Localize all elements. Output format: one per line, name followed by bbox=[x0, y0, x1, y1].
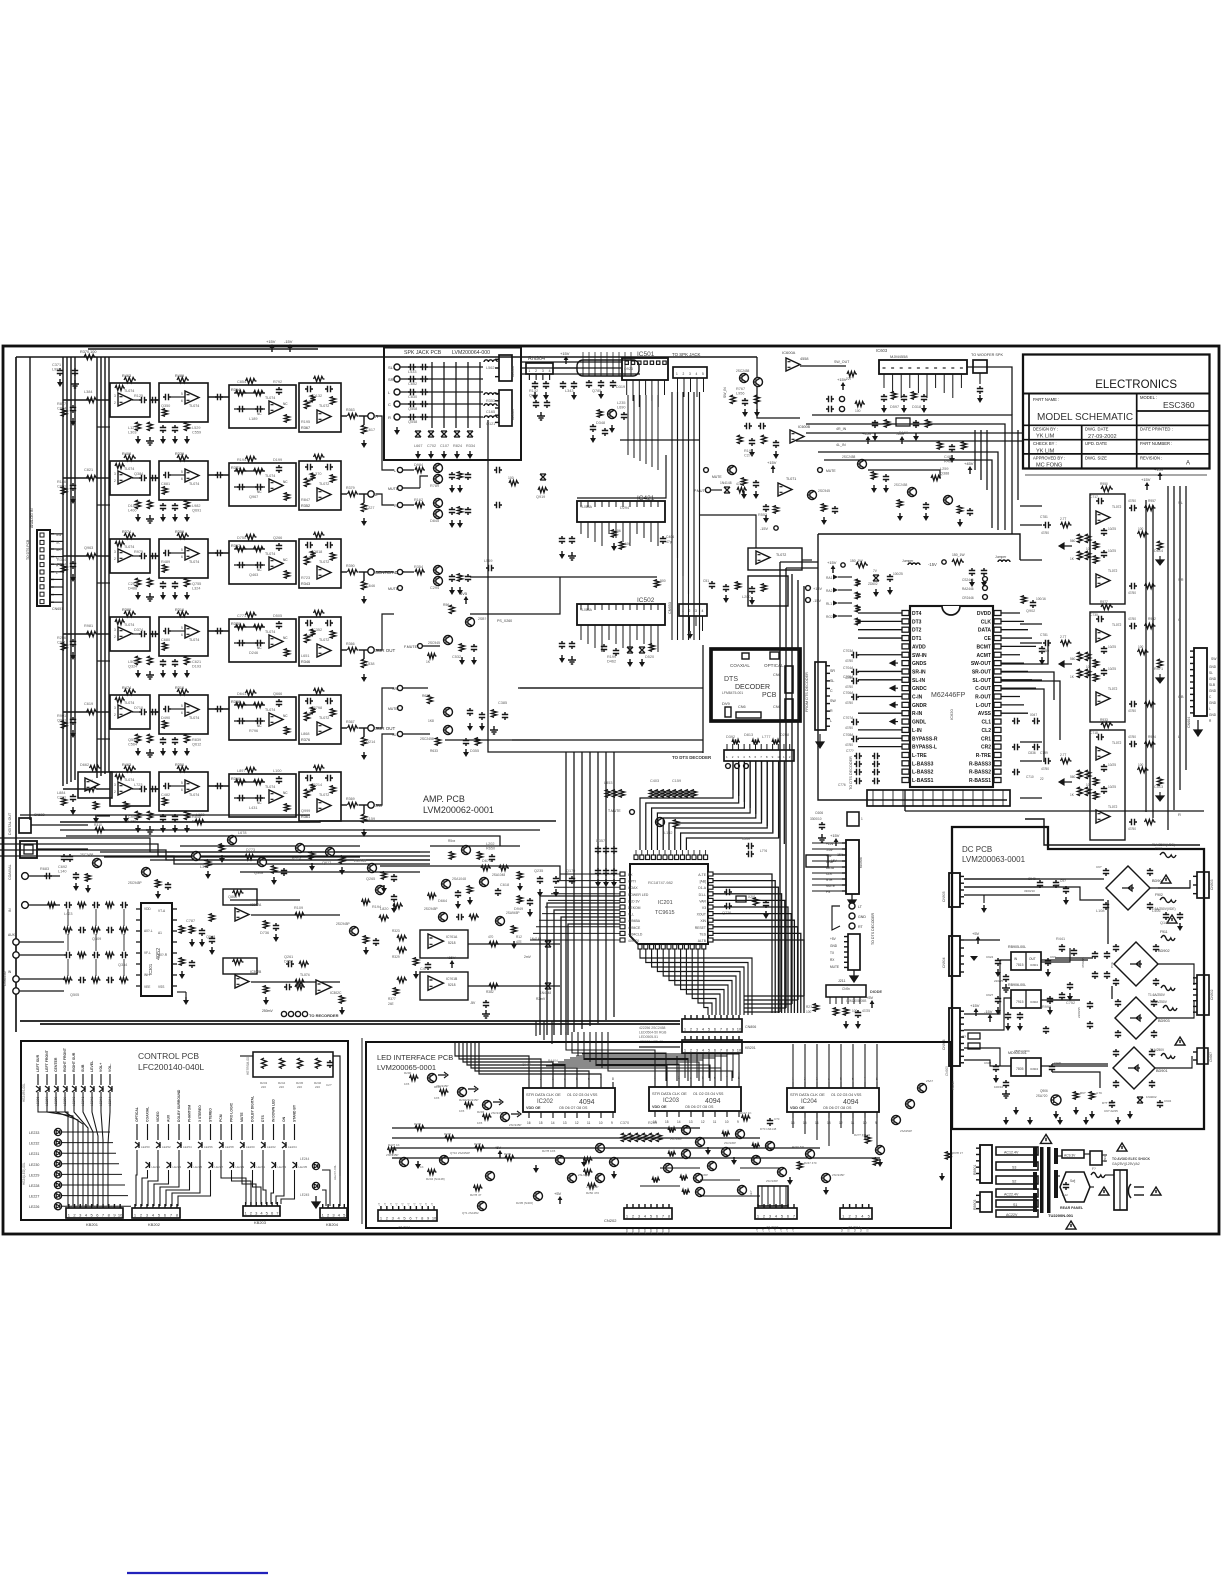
svg-text:GNDL: GNDL bbox=[912, 720, 926, 726]
svg-text:R367: R367 bbox=[346, 720, 355, 724]
svg-text:CN301-00: CN301-00 bbox=[3, 971, 7, 986]
svg-text:AC9.3V: AC9.3V bbox=[1064, 1154, 1076, 1158]
svg-text:3: 3 bbox=[114, 706, 116, 710]
svg-text:1: 1 bbox=[528, 369, 530, 373]
svg-text:MODEL :: MODEL : bbox=[1140, 395, 1157, 400]
svg-text:R369: R369 bbox=[346, 797, 355, 801]
svg-text:L100: L100 bbox=[273, 769, 281, 773]
svg-text:R408: R408 bbox=[122, 452, 131, 456]
svg-text:D462: D462 bbox=[607, 660, 616, 664]
svg-text:L: L bbox=[1209, 707, 1211, 711]
svg-text:R377: R377 bbox=[388, 997, 396, 1001]
mid caps row bbox=[537, 876, 543, 884]
LED pcb inter-transistor wires bbox=[660, 1167, 700, 1169]
load resistor + ground bbox=[363, 805, 365, 814]
svg-text:LVM200064-000: LVM200064-000 bbox=[452, 350, 490, 356]
svg-text:4: 4 bbox=[549, 369, 551, 373]
reg support caps bbox=[709, 581, 715, 589]
svg-text:C77?: C77? bbox=[846, 749, 854, 753]
svg-text:250mV: 250mV bbox=[262, 1009, 273, 1013]
svg-text:PRO LOGIC: PRO LOGIC bbox=[230, 1102, 234, 1122]
CN904 connector bbox=[949, 936, 960, 976]
IC301 bottom ground bbox=[185, 997, 187, 1000]
svg-text:R957: R957 bbox=[1148, 499, 1156, 503]
svg-text:2.7T: 2.7T bbox=[1060, 753, 1066, 757]
svg-text:DWG. SIZE: DWG. SIZE bbox=[1085, 455, 1107, 460]
left vertical bus wires bbox=[15, 357, 17, 1032]
svg-text:C646: C646 bbox=[366, 584, 375, 588]
transistor near IC603 bbox=[858, 460, 867, 469]
svg-text:+5: +5 bbox=[779, 1228, 783, 1232]
svg-text:5: 5 bbox=[181, 548, 183, 552]
svg-text:R5xx: R5xx bbox=[448, 839, 456, 843]
svg-text:C: C bbox=[830, 689, 833, 693]
feedback resistors bbox=[1101, 486, 1113, 491]
output resistor A bbox=[1129, 505, 1137, 511]
svg-text:+5B: +5B bbox=[655, 1229, 659, 1234]
svg-text:R237 1K: R237 1K bbox=[388, 1143, 400, 1147]
svg-text:2SA?20: 2SA?20 bbox=[1036, 1094, 1048, 1098]
svg-text:DT3: DT3 bbox=[912, 619, 922, 625]
svg-text:10/25: 10/25 bbox=[1108, 645, 1116, 649]
svg-text:ACMT: ACMT bbox=[977, 653, 991, 659]
svg-text:GND: GND bbox=[1209, 689, 1217, 693]
svg-text:RB901: RB901 bbox=[973, 1165, 977, 1175]
svg-text:RG2: RG2 bbox=[826, 615, 833, 619]
cluster left of IC302C bbox=[286, 961, 294, 967]
svg-text:LE221: LE221 bbox=[152, 1165, 161, 1169]
svg-text:STEREO: STEREO bbox=[209, 1108, 213, 1122]
svg-text:CE: CE bbox=[984, 636, 992, 642]
svg-text:R933: R933 bbox=[1100, 718, 1108, 722]
svg-text:+5V: +5V bbox=[554, 1191, 562, 1196]
filter row stage 2 (op-amp) bbox=[159, 539, 208, 578]
wire loop left of DTS box bbox=[702, 645, 704, 753]
svg-text:5: 5 bbox=[181, 781, 183, 785]
SPK JACK PCB boundary bbox=[384, 348, 521, 461]
RN904 caps cluster bbox=[532, 381, 538, 389]
svg-text:R132: R132 bbox=[529, 389, 538, 393]
svg-text:R796: R796 bbox=[249, 729, 258, 733]
MCU right bus wires bbox=[713, 874, 772, 1013]
line filter hexagon bbox=[1060, 1172, 1090, 1202]
svg-text:D488: D488 bbox=[128, 587, 137, 591]
coupling caps bbox=[150, 397, 158, 403]
svg-text:GNDC: GNDC bbox=[912, 686, 927, 692]
svg-text:LE231: LE231 bbox=[257, 1165, 266, 1169]
M62446FP routing boundary bbox=[1031, 389, 1033, 391]
right side pin wires bbox=[1001, 612, 1020, 614]
svg-text:K: K bbox=[88, 1205, 92, 1207]
svg-text:CN902: CN902 bbox=[1210, 989, 1214, 1000]
RB901 connector bbox=[980, 1145, 992, 1183]
shift register IC202 4094 bbox=[523, 1088, 615, 1112]
mid caps bbox=[1101, 528, 1107, 536]
wire to output bbox=[341, 415, 347, 417]
MCU routing fan from TO DTS bbox=[640, 761, 733, 850]
svg-text:R354: R354 bbox=[414, 565, 423, 569]
svg-text:IN: IN bbox=[8, 908, 12, 912]
svg-text:CN905: CN905 bbox=[945, 1066, 949, 1076]
svg-text:2SA1048: 2SA1048 bbox=[452, 877, 466, 881]
svg-text:RIGHT FRONT: RIGHT FRONT bbox=[63, 1047, 67, 1072]
svg-text:SR: SR bbox=[388, 377, 394, 382]
filter row stage 1 (op-amp) bbox=[110, 617, 150, 651]
svg-text:R117 1K: R117 1K bbox=[740, 1111, 751, 1115]
extra wires top mid bbox=[700, 515, 756, 548]
svg-text:D926: D926 bbox=[624, 367, 633, 371]
+15V arrow near RN904 bbox=[565, 359, 567, 364]
svg-text:8: 8 bbox=[612, 1077, 614, 1081]
svg-text:5218: 5218 bbox=[448, 983, 456, 987]
svg-text:R374: R374 bbox=[122, 530, 131, 534]
svg-text:10: 10 bbox=[725, 1120, 729, 1124]
svg-text:SL: SL bbox=[830, 679, 834, 683]
op-amp TL071 bbox=[778, 483, 792, 496]
extra verticals into LED pcb bbox=[535, 1021, 537, 1036]
svg-text:4094: 4094 bbox=[579, 1099, 595, 1106]
svg-text:47/50: 47/50 bbox=[1041, 767, 1049, 771]
wire bbox=[208, 785, 229, 787]
wire bbox=[208, 552, 229, 554]
svg-text:BD901: BD901 bbox=[1156, 1069, 1168, 1073]
M62446 input caps bbox=[851, 652, 859, 658]
svg-text:+5: +5 bbox=[791, 1228, 795, 1232]
svg-text:-15V: -15V bbox=[928, 562, 937, 567]
top caps C940 bbox=[1037, 880, 1043, 888]
RN903 caps below bbox=[586, 380, 592, 388]
svg-text:GND: GND bbox=[1209, 665, 1217, 669]
svg-text:C703A: C703A bbox=[843, 649, 854, 653]
svg-text:220: 220 bbox=[315, 1085, 320, 1089]
svg-text:Q919: Q919 bbox=[536, 495, 545, 499]
svg-text:Q505: Q505 bbox=[70, 993, 79, 997]
svg-text:TL072: TL072 bbox=[319, 560, 329, 564]
svg-text:COAX: COAX bbox=[628, 886, 638, 890]
svg-text:C9?: C9? bbox=[1096, 865, 1102, 869]
svg-text:L-TRE: L-TRE bbox=[912, 753, 927, 759]
+15V -15V labels bottom bbox=[835, 841, 837, 846]
right amp boundary bbox=[1025, 474, 1207, 476]
svg-text:3: 3 bbox=[114, 472, 116, 476]
svg-text:LED INTERFACE PCB: LED INTERFACE PCB bbox=[377, 1053, 453, 1062]
svg-text:Q999: Q999 bbox=[301, 809, 310, 813]
svg-text:CS2446: CS2446 bbox=[962, 578, 974, 582]
svg-text:REAR PANEL: REAR PANEL bbox=[1060, 1206, 1084, 1210]
bias network right middle bbox=[908, 488, 917, 497]
svg-text:L538: L538 bbox=[366, 662, 374, 666]
svg-text:C771: C771 bbox=[237, 614, 246, 618]
border frame bbox=[3, 346, 1219, 1234]
svg-text:KB202: KB202 bbox=[148, 1222, 161, 1227]
svg-text:D845: D845 bbox=[430, 519, 439, 523]
title block bbox=[1023, 355, 1210, 469]
amp strip extra transistors bbox=[192, 852, 201, 861]
ground arrow bbox=[1059, 543, 1072, 549]
svg-text:INH: INH bbox=[144, 973, 150, 977]
IC202 bottom pins bbox=[528, 1112, 530, 1118]
svg-text:LE227: LE227 bbox=[29, 1195, 39, 1199]
svg-text:C730: C730 bbox=[1090, 613, 1098, 617]
svg-text:C482: C482 bbox=[161, 793, 170, 797]
svg-text:2SB?: 2SB? bbox=[478, 617, 486, 621]
filter row stage 3 (op-amp) bbox=[229, 541, 296, 584]
svg-text:3: 3 bbox=[114, 628, 116, 632]
svg-text:2SC945: 2SC945 bbox=[428, 641, 440, 645]
svg-text:-15V: -15V bbox=[984, 1009, 993, 1014]
warning above transformer bbox=[1040, 1134, 1051, 1143]
fuse F911 bbox=[1161, 936, 1175, 941]
row7 extra grounds bbox=[93, 802, 98, 810]
CN905 connector bbox=[949, 873, 960, 907]
input caps left bbox=[1043, 758, 1051, 764]
svg-text:S3: S3 bbox=[1012, 1166, 1016, 1170]
svg-text:+5B: +5B bbox=[643, 1229, 647, 1234]
svg-text:+15V: +15V bbox=[837, 377, 847, 382]
analog input connector CN651 bbox=[37, 530, 50, 606]
load resistor + ground bbox=[363, 650, 365, 659]
svg-text:NC: NC bbox=[257, 568, 262, 572]
svg-text:R359: R359 bbox=[175, 530, 184, 534]
load resistor + ground bbox=[363, 494, 365, 503]
svg-text:TL074: TL074 bbox=[124, 623, 134, 627]
svg-text:Q324: Q324 bbox=[128, 665, 137, 669]
svg-text:R-TRE: R-TRE bbox=[976, 753, 992, 759]
svg-text:NC: NC bbox=[257, 646, 262, 650]
output transistor after TL071 bbox=[808, 491, 817, 500]
svg-text:2SC945P: 2SC945P bbox=[724, 1141, 736, 1145]
svg-text:D1-A: D1-A bbox=[698, 886, 706, 890]
mid verticals extension bbox=[671, 540, 673, 640]
mid group wires to KB203 bbox=[221, 1150, 246, 1204]
load resistor + ground bbox=[363, 416, 365, 425]
svg-text:R792: R792 bbox=[273, 380, 282, 384]
svg-text:DC PCB: DC PCB bbox=[962, 845, 992, 854]
svg-text:7815: 7815 bbox=[1016, 963, 1024, 967]
svg-text:SG: SG bbox=[866, 1228, 870, 1232]
svg-text:560: 560 bbox=[1070, 539, 1076, 543]
svg-text:TL074: TL074 bbox=[265, 552, 275, 556]
svg-text:CN90?: CN90? bbox=[1209, 1052, 1213, 1062]
svg-text:C814: C814 bbox=[57, 407, 66, 411]
svg-text:220: 220 bbox=[297, 1085, 302, 1089]
amp strip transistor cluster B bbox=[442, 880, 451, 889]
filter row stage 2 (op-amp) bbox=[159, 772, 208, 811]
svg-text:R: R bbox=[830, 709, 833, 713]
output resistor bbox=[348, 413, 359, 418]
test circles below bbox=[726, 764, 731, 769]
svg-text:TL084A: TL084A bbox=[580, 608, 593, 612]
svg-text:L: L bbox=[830, 719, 832, 723]
nested bus rectangles bbox=[540, 896, 620, 1035]
svg-text:D949: D949 bbox=[514, 907, 523, 911]
filter row stage 2 (op-amp) bbox=[159, 617, 208, 656]
MCU bottom pins bbox=[638, 945, 642, 950]
svg-text:5: 5 bbox=[702, 372, 704, 376]
output jack bbox=[359, 804, 368, 806]
wires CN806 down to LED interface bbox=[684, 1053, 686, 1078]
svg-text:10: 10 bbox=[118, 1213, 123, 1218]
svg-text:2SC945P: 2SC945P bbox=[586, 1185, 598, 1189]
right LED pair bbox=[312, 1162, 319, 1169]
stage bias resistors and grounds bbox=[135, 500, 140, 509]
svg-text:47/50: 47/50 bbox=[845, 743, 853, 747]
svg-text:PGND: PGND bbox=[951, 1080, 955, 1090]
transistor cluster right of RN903 bbox=[608, 410, 617, 419]
svg-text:C911: C911 bbox=[57, 641, 66, 645]
svg-text:L423: L423 bbox=[64, 912, 72, 916]
svg-text:D662: D662 bbox=[80, 763, 89, 767]
svg-text:DATE PRINTED :: DATE PRINTED : bbox=[1140, 427, 1173, 432]
svg-text:[AB]: [AB] bbox=[700, 880, 706, 884]
svg-text:K: K bbox=[65, 1205, 69, 1207]
svg-text:A-TE: A-TE bbox=[698, 873, 706, 877]
svg-text:R723: R723 bbox=[301, 576, 310, 580]
center transistors bbox=[556, 1156, 565, 1165]
4R_IN 4L_IN wires bbox=[806, 432, 1023, 434]
fuse F905 bbox=[1161, 1054, 1175, 1059]
svg-text:R981: R981 bbox=[84, 624, 93, 628]
svg-text:R382: R382 bbox=[486, 990, 494, 994]
svg-text:C680: C680 bbox=[161, 638, 170, 642]
svg-text:C370: C370 bbox=[620, 1121, 629, 1125]
svg-text:R296: R296 bbox=[414, 1122, 422, 1126]
caps C905 C906 bbox=[560, 381, 566, 389]
svg-text:R9?8 1?: R9?8 1? bbox=[952, 1151, 963, 1155]
svg-text:11: 11 bbox=[587, 1121, 591, 1125]
svg-text:LE229: LE229 bbox=[236, 1165, 245, 1169]
svg-text:3: 3 bbox=[695, 609, 697, 613]
svg-text:CN201: CN201 bbox=[398, 1225, 411, 1230]
svg-text:2SA?: 2SA? bbox=[926, 1079, 933, 1083]
CN906 arrows bbox=[975, 1011, 977, 1016]
CN905 wires bbox=[964, 878, 1040, 880]
svg-text:KB906: KB906 bbox=[859, 857, 863, 868]
svg-text:NC: NC bbox=[283, 402, 288, 406]
svg-text:XIN: XIN bbox=[700, 919, 706, 923]
svg-text:R798: R798 bbox=[313, 706, 322, 710]
svg-text:R297: R297 bbox=[444, 1132, 452, 1136]
recorder separator double line bbox=[20, 1020, 680, 1022]
svg-text:VT-A: VT-A bbox=[158, 909, 166, 913]
svg-text:+5: +5 bbox=[401, 1202, 405, 1206]
svg-text:R316: R316 bbox=[175, 608, 184, 612]
svg-text:13: 13 bbox=[689, 1120, 693, 1124]
svg-text:TL072: TL072 bbox=[1108, 805, 1118, 809]
svg-text:47/50: 47/50 bbox=[1128, 827, 1136, 831]
left lower opamp IC302C bbox=[316, 980, 331, 994]
CN906 connector bbox=[949, 1008, 960, 1066]
svg-text:VDD OE: VDD OE bbox=[526, 1106, 541, 1110]
svg-text:3: 3 bbox=[689, 372, 691, 376]
svg-text:C704A: C704A bbox=[843, 666, 854, 670]
filter row stage 3 (op-amp) bbox=[229, 774, 296, 817]
svg-text:D597: D597 bbox=[890, 405, 899, 409]
svg-text:3: 3 bbox=[114, 394, 116, 398]
svg-text:2SA1048: 2SA1048 bbox=[492, 873, 505, 877]
svg-text:L370: L370 bbox=[313, 472, 321, 476]
svg-text:C371: C371 bbox=[52, 363, 61, 367]
svg-text:IC901: IC901 bbox=[1030, 963, 1038, 967]
svg-text:L562: L562 bbox=[486, 366, 494, 370]
svg-text:C403: C403 bbox=[650, 779, 659, 783]
wire bbox=[150, 633, 159, 635]
svg-text:R839: R839 bbox=[192, 738, 201, 742]
bus into led pcb from top bbox=[566, 1032, 655, 1081]
svg-text:SL-IN: SL-IN bbox=[912, 678, 925, 684]
svg-text:GNDS: GNDS bbox=[912, 661, 927, 667]
coupling caps bbox=[150, 631, 158, 637]
svg-text:MODEL SCHEMATIC: MODEL SCHEMATIC bbox=[1037, 412, 1133, 423]
svg-text:L777: L777 bbox=[762, 735, 770, 739]
svg-text:K: K bbox=[94, 1205, 98, 1207]
svg-text:LE256: LE256 bbox=[204, 1145, 213, 1149]
svg-text:LE264: LE264 bbox=[288, 1145, 297, 1149]
output resistor A bbox=[1129, 623, 1137, 629]
svg-text:C267: C267 bbox=[128, 582, 137, 586]
svg-text:3300/10: 3300/10 bbox=[810, 817, 822, 821]
svg-text:2SC945P: 2SC945P bbox=[336, 922, 350, 926]
svg-text:ON: ON bbox=[282, 1116, 286, 1122]
svg-text:R650: R650 bbox=[486, 847, 495, 851]
svg-text:L227: L227 bbox=[366, 506, 374, 510]
svg-text:C107: C107 bbox=[440, 444, 449, 448]
svg-text:R195: R195 bbox=[744, 449, 753, 453]
coupling caps bbox=[150, 553, 158, 559]
svg-text:Q350: Q350 bbox=[161, 404, 170, 408]
svg-text:LEFT FRONT: LEFT FRONT bbox=[45, 1049, 49, 1072]
svg-text:C165: C165 bbox=[486, 410, 495, 414]
svg-text:TL074: TL074 bbox=[124, 545, 134, 549]
svg-text:4R_IN: 4R_IN bbox=[836, 427, 847, 431]
svg-text:+5: +5 bbox=[767, 1228, 771, 1232]
svg-text:PCM: PCM bbox=[219, 1114, 223, 1122]
svg-text:R323: R323 bbox=[392, 929, 400, 933]
svg-text:F911: F911 bbox=[1160, 930, 1168, 934]
svg-text:D318: D318 bbox=[912, 405, 921, 409]
filter row stage 1 (op-amp) bbox=[110, 772, 150, 806]
svg-text:R292: R292 bbox=[459, 1098, 467, 1102]
svg-text:MUTE: MUTE bbox=[712, 475, 722, 479]
svg-text:2SC945P: 2SC945P bbox=[466, 1098, 478, 1102]
svg-text:D319: D319 bbox=[616, 385, 625, 389]
svg-text:MUTE: MUTE bbox=[830, 965, 839, 969]
svg-text:R371: R371 bbox=[231, 466, 240, 470]
right decoupling R/C bbox=[1021, 596, 1026, 604]
SPK to IC501 wires bbox=[521, 361, 622, 363]
svg-text:T1.6A/250V: T1.6A/250V bbox=[1150, 1000, 1168, 1004]
filter row stage 3 (op-amp) bbox=[229, 619, 296, 662]
svg-text:C934: C934 bbox=[1164, 1099, 1172, 1103]
IC203 left pins wires bbox=[540, 1068, 655, 1081]
svg-text:VEE: VEE bbox=[144, 985, 150, 989]
svg-text:TO RECORDER: TO RECORDER bbox=[309, 1013, 339, 1018]
svg-text:DT2: DT2 bbox=[912, 628, 922, 634]
svg-text:SW: SW bbox=[56, 533, 62, 537]
svg-text:R767: R767 bbox=[736, 387, 745, 391]
svg-text:C513: C513 bbox=[1154, 785, 1163, 789]
svg-text:R339: R339 bbox=[175, 452, 184, 456]
SR mute caps bbox=[467, 708, 473, 716]
mid group LED row2 bbox=[146, 1162, 150, 1168]
svg-text:R367: R367 bbox=[301, 426, 310, 430]
svg-text:L723: L723 bbox=[134, 783, 142, 787]
svg-text:1K5: 1K5 bbox=[459, 1109, 465, 1113]
svg-text:6: 6 bbox=[181, 555, 183, 559]
svg-text:A1: A1 bbox=[158, 931, 162, 935]
DC PCB vertical links bbox=[1107, 900, 1109, 944]
svg-text:C?404: C?404 bbox=[522, 1063, 532, 1067]
